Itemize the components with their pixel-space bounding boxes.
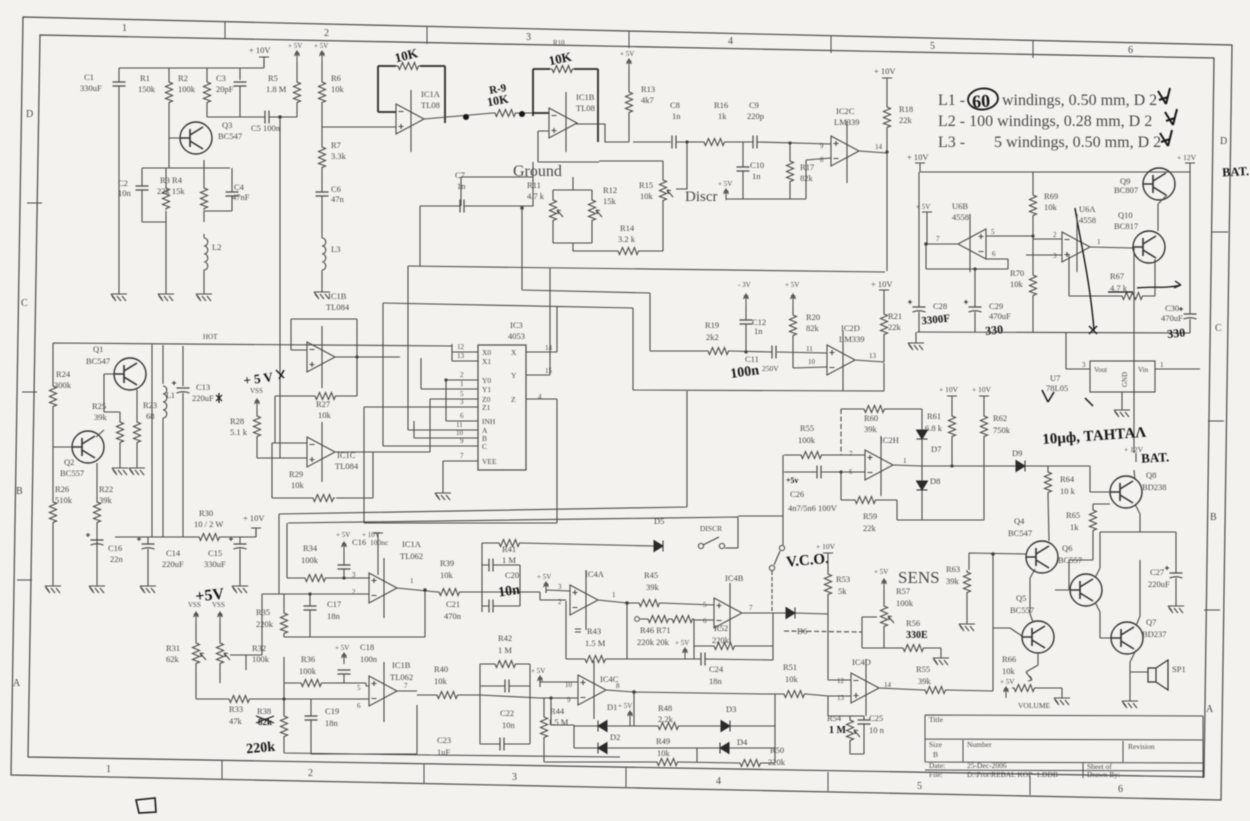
wire — [726, 141, 753, 143]
svg-text:Q3: Q3 — [222, 120, 232, 130]
svg-text:R63: R63 — [946, 564, 960, 574]
svg-text:R11: R11 — [527, 180, 541, 190]
wire q4 chain — [1030, 569, 1035, 622]
op-amp IC1A TL062 — [369, 573, 397, 603]
potentiometer R15 — [660, 178, 674, 202]
svg-text:8: 8 — [820, 156, 824, 164]
svg-text:R24: R24 — [56, 369, 71, 379]
wire q2 collector — [96, 463, 98, 580]
resistor R53 — [825, 572, 832, 596]
svg-text:VEE: VEE — [482, 457, 497, 466]
wire long mid line to R19 — [522, 209, 706, 351]
svg-text:R45: R45 — [644, 570, 658, 580]
svg-text:3: 3 — [558, 583, 562, 591]
capacitor C17 — [304, 606, 317, 610]
svg-text:R50: R50 — [770, 745, 784, 755]
capacitor C25 — [858, 720, 871, 724]
svg-text:10n: 10n — [118, 188, 132, 198]
resistor R44 — [541, 715, 548, 739]
pin numbers — [456, 343, 553, 460]
svg-text:100n: 100n — [360, 654, 378, 664]
svg-text:Y0: Y0 — [482, 376, 491, 385]
resistor R10 — [550, 66, 574, 73]
potentiometer R12 — [589, 198, 603, 222]
svg-text:R39: R39 — [440, 558, 454, 568]
svg-text:2: 2 — [324, 28, 329, 39]
svg-text:BC547: BC547 — [1008, 528, 1032, 538]
capacitor C16b — [338, 565, 351, 569]
capacitor C22 — [505, 680, 509, 693]
svg-text:C27: C27 — [1150, 567, 1164, 577]
svg-text:L3: L3 — [331, 244, 340, 254]
power +10V — [882, 78, 892, 87]
svg-text:220k 20k: 220k 20k — [637, 637, 670, 647]
svg-text:+ 10V: + 10V — [871, 279, 893, 289]
resistor R51 — [782, 691, 806, 698]
svg-text:IC2H: IC2H — [880, 435, 899, 445]
svg-text:X: X — [511, 348, 517, 357]
svg-text:+ 10V: + 10V — [972, 385, 992, 394]
resistor R2 — [204, 80, 211, 104]
transistor Q9 — [1143, 168, 1175, 200]
svg-text:1: 1 — [122, 23, 127, 34]
wire — [676, 141, 704, 143]
svg-text:+5v: +5v — [786, 476, 799, 485]
resistor R61 — [949, 414, 956, 438]
svg-text:IC4A: IC4A — [585, 569, 605, 579]
svg-text:10k: 10k — [1010, 279, 1024, 289]
svg-text:Revision: Revision — [1128, 742, 1155, 751]
resistor R48 — [656, 723, 680, 730]
svg-text:R21: R21 — [888, 311, 902, 321]
wire L1/C13 to bottom rail — [163, 393, 183, 537]
wire discr line — [726, 158, 831, 199]
svg-text:10n: 10n — [497, 583, 521, 601]
svg-text:2: 2 — [352, 588, 356, 596]
diode D3 — [721, 721, 730, 732]
svg-text:BD238: BD238 — [1142, 482, 1167, 492]
svg-text:12: 12 — [457, 343, 465, 351]
svg-text:C18: C18 — [360, 642, 374, 652]
svg-text:R18: R18 — [899, 104, 913, 114]
resistor R62 — [981, 414, 988, 438]
svg-text:C17: C17 — [327, 599, 341, 609]
supply +5V — [922, 212, 932, 221]
svg-text:R48: R48 — [658, 703, 672, 713]
svg-text:+ 10V: + 10V — [939, 385, 959, 394]
pin X0 X1 stubs — [452, 344, 478, 361]
svg-text:330: 330 — [1167, 325, 1186, 341]
svg-text:18n: 18n — [325, 718, 339, 728]
ground — [196, 288, 212, 301]
svg-text:470n: 470n — [444, 611, 462, 621]
capacitor C2 — [136, 186, 149, 190]
svg-text:C26: C26 — [790, 489, 804, 499]
svg-text:+ 5V: + 5V — [531, 667, 545, 675]
svg-text:L2: L2 — [212, 242, 221, 252]
svg-text:22k: 22k — [863, 523, 877, 533]
svg-text:R14: R14 — [620, 223, 635, 233]
svg-text:- 3V: - 3V — [738, 281, 751, 289]
svg-text:39k: 39k — [864, 424, 878, 434]
svg-text:10: 10 — [808, 358, 816, 366]
svg-text:750k: 750k — [993, 425, 1011, 435]
svg-text:1.5 M: 1.5 M — [585, 638, 606, 648]
svg-text:Q8: Q8 — [1146, 470, 1156, 480]
svg-text:Q7: Q7 — [1146, 617, 1156, 627]
resistor R28 — [254, 414, 261, 438]
svg-text:R1: R1 — [140, 73, 150, 83]
U7 78L05 box — [1090, 361, 1155, 392]
transistor Q10 — [1133, 231, 1165, 263]
svg-text:R16: R16 — [714, 100, 728, 110]
wire bottom row — [544, 694, 775, 763]
svg-text:R67: R67 — [1110, 271, 1124, 281]
ground — [1168, 600, 1184, 613]
svg-text:D9: D9 — [1012, 448, 1022, 458]
wire IC1B plus loop to ground bus — [538, 131, 599, 162]
resistor R16 — [702, 139, 726, 146]
svg-text:Vout: Vout — [1094, 366, 1107, 374]
svg-text:+ 5V: + 5V — [537, 573, 551, 581]
svg-text:+ 10V: + 10V — [874, 66, 896, 76]
svg-text:R12: R12 — [603, 185, 617, 195]
power +10V — [823, 553, 833, 562]
svg-text:300k: 300k — [54, 380, 72, 390]
svg-text:R19: R19 — [705, 320, 719, 330]
svg-text:1 M: 1 M — [829, 725, 847, 736]
wire r33 line — [196, 699, 369, 714]
op-amp IC1B TL084 — [307, 342, 335, 372]
svg-text:+ 5V: + 5V — [336, 531, 350, 539]
capacitor C11 — [772, 346, 776, 359]
svg-text:39k: 39k — [99, 495, 113, 505]
svg-text:C20: C20 — [505, 570, 519, 580]
wire IC4B out to D6 — [742, 613, 828, 614]
resistor R46 — [635, 617, 640, 622]
svg-text:6: 6 — [1128, 45, 1133, 56]
svg-text:C15: C15 — [208, 548, 222, 558]
resistor R30 — [197, 534, 221, 541]
svg-text:+ 5V: + 5V — [785, 281, 799, 289]
svg-text:5: 5 — [460, 390, 464, 398]
svg-text:Q1: Q1 — [93, 344, 103, 354]
svg-text:C3: C3 — [216, 73, 226, 83]
supply +5V arrow — [320, 51, 325, 62]
svg-text:220k: 220k — [246, 740, 276, 757]
svg-text:4558: 4558 — [1079, 215, 1096, 225]
long bus B to DISCR switch — [287, 516, 783, 578]
svg-text:R13: R13 — [641, 84, 655, 94]
transistor Q6 — [1070, 574, 1102, 606]
svg-text:4k7: 4k7 — [641, 95, 654, 105]
svg-text:100k: 100k — [178, 84, 196, 94]
svg-text:D1: D1 — [607, 702, 617, 712]
svg-text:39k: 39k — [946, 576, 960, 586]
svg-text:10k: 10k — [318, 410, 332, 420]
svg-text:R15: R15 — [639, 180, 653, 190]
svg-text:39k: 39k — [94, 412, 108, 422]
svg-text:R44: R44 — [550, 706, 565, 716]
svg-text:4558: 4558 — [952, 212, 969, 222]
capacitor C21 — [489, 600, 493, 613]
svg-text:+ 10V: + 10V — [362, 531, 380, 539]
wire U6A out to Q10 — [1090, 247, 1133, 248]
svg-text:78L05: 78L05 — [1046, 383, 1068, 393]
capacitor C10 — [742, 142, 744, 199]
svg-text:L1 -: L1 - — [938, 92, 965, 109]
inductor L1 search coil — [163, 386, 167, 418]
svg-text:BD237: BD237 — [1142, 629, 1167, 639]
svg-text:+ 10V: + 10V — [816, 542, 836, 551]
capacitor C27 — [1165, 566, 1183, 578]
svg-text:R36: R36 — [301, 654, 315, 664]
svg-text:220k: 220k — [256, 619, 274, 629]
svg-text:4n7/5n6 100V: 4n7/5n6 100V — [788, 503, 838, 513]
svg-text:INH: INH — [482, 417, 496, 426]
svg-text:47n: 47n — [331, 194, 345, 204]
svg-text:7: 7 — [936, 235, 940, 243]
resistor R69 — [1030, 193, 1037, 217]
ground — [232, 580, 248, 593]
capacitor C3 — [234, 82, 247, 86]
resistor R33 — [227, 696, 251, 703]
wire IC2H out — [893, 465, 1090, 466]
wire C7 left drop — [419, 206, 421, 266]
svg-text:Y1: Y1 — [482, 385, 491, 394]
wire top rail to +12V — [919, 172, 1190, 307]
svg-text:R34: R34 — [303, 543, 318, 553]
wire top rail — [119, 57, 322, 117]
svg-text:C30: C30 — [1165, 303, 1179, 313]
svg-text:2: 2 — [1053, 231, 1057, 239]
svg-text:Size: Size — [929, 740, 943, 749]
svg-text:Q4: Q4 — [1014, 516, 1025, 526]
svg-text:6: 6 — [357, 702, 361, 710]
svg-text:B: B — [933, 750, 938, 759]
svg-text:C1: C1 — [84, 72, 94, 82]
supply +5V — [882, 579, 887, 590]
op-amp IC4A — [570, 585, 598, 615]
svg-text:1: 1 — [1160, 361, 1164, 369]
svg-text:D:\Prot\REBAL KOP~1.DDB: D:\Prot\REBAL KOP~1.DDB — [967, 770, 1058, 779]
svg-text:R20: R20 — [806, 312, 820, 322]
pin labels inside — [482, 348, 517, 466]
wire R67 — [1069, 295, 1155, 297]
svg-text:R60: R60 — [864, 413, 878, 423]
op-amp IC4C — [578, 675, 606, 705]
svg-text:22k: 22k — [888, 322, 902, 332]
wire R28 to inputs — [257, 410, 280, 458]
svg-text:C23: C23 — [437, 735, 451, 745]
wire q1 base/emitter — [96, 374, 137, 462]
wire verticals from upper stages — [383, 266, 430, 452]
ground — [959, 618, 975, 631]
svg-text:R62: R62 — [993, 413, 1007, 423]
resistor R39 — [437, 589, 461, 596]
resistor R3 — [163, 186, 170, 210]
svg-text:BAT.: BAT. — [1141, 449, 1170, 465]
svg-text:220k: 220k — [768, 757, 786, 767]
op-amp IC1B — [549, 108, 577, 138]
svg-text:+ 5V: + 5V — [718, 180, 732, 188]
svg-text:R46 R71: R46 R71 — [640, 625, 670, 635]
svg-text:D7: D7 — [931, 444, 941, 454]
svg-text:R6: R6 — [331, 73, 341, 83]
wire U6B inputs — [986, 217, 1033, 273]
svg-text:12: 12 — [837, 677, 845, 685]
svg-text:D3: D3 — [726, 704, 736, 714]
svg-text:10k: 10k — [657, 748, 671, 758]
wire X output up and across to IC2D net — [383, 303, 884, 391]
svg-text:R51: R51 — [783, 662, 797, 672]
capacitor C29 — [964, 300, 982, 312]
svg-text:R10: R10 — [553, 39, 565, 47]
svg-text:R35: R35 — [256, 607, 270, 617]
svg-text:+ 5V: + 5V — [335, 644, 349, 652]
svg-text:3: 3 — [1053, 252, 1057, 260]
svg-text:4.7 k: 4.7 k — [527, 191, 545, 201]
wire — [166, 104, 297, 288]
wire bottom rail — [917, 332, 1190, 333]
svg-text:C24: C24 — [709, 664, 724, 674]
capacitor C12 — [745, 305, 747, 353]
wire base network — [142, 104, 230, 288]
power +10V — [251, 528, 261, 537]
svg-text:Q6: Q6 — [1062, 543, 1072, 553]
svg-text:R28: R28 — [230, 416, 244, 426]
capacitor C6 — [316, 192, 329, 196]
svg-text:R54: R54 — [827, 713, 842, 723]
svg-text:BC547: BC547 — [218, 131, 242, 141]
wire R60 loop — [841, 409, 922, 430]
resistor R7 — [319, 145, 326, 169]
svg-text:B: B — [1210, 512, 1217, 523]
svg-text:47k: 47k — [229, 716, 243, 726]
wire plus line from switch — [783, 455, 865, 545]
svg-text:GND: GND — [1121, 372, 1129, 387]
svg-text:R40: R40 — [434, 664, 448, 674]
svg-text:9: 9 — [567, 696, 571, 704]
svg-text:10k: 10k — [291, 480, 305, 490]
svg-text:20pF: 20pF — [216, 84, 234, 94]
svg-text:3.3k: 3.3k — [331, 151, 347, 161]
svg-text:A: A — [1206, 704, 1214, 715]
capacitor C5 — [265, 111, 269, 124]
svg-text:13: 13 — [457, 352, 465, 360]
resistor R38 — [281, 714, 288, 738]
svg-text:+ 5V: + 5V — [288, 42, 302, 50]
svg-text:C25: C25 — [869, 713, 883, 723]
handwritten small square bottom-left — [136, 798, 156, 813]
resistor R25 — [117, 420, 124, 444]
resistor R4 — [201, 186, 208, 210]
svg-text:D2: D2 — [610, 732, 620, 742]
svg-text:7: 7 — [849, 450, 853, 458]
svg-text:D: D — [1220, 136, 1227, 147]
svg-text:10k: 10k — [331, 84, 345, 94]
svg-text:IC1A: IC1A — [402, 539, 422, 549]
svg-text:220uF: 220uF — [162, 559, 184, 569]
svg-text:R27: R27 — [316, 399, 330, 409]
wire plus input — [546, 590, 627, 603]
op-amp IC1B feedback box with R10 — [533, 69, 598, 142]
svg-text:C19: C19 — [325, 706, 339, 716]
svg-text:4: 4 — [728, 36, 733, 47]
svg-text:11: 11 — [456, 421, 463, 429]
svg-text:5 windings, 0.50 mm, D 2: 5 windings, 0.50 mm, D 2 — [994, 134, 1161, 151]
pin VEE wire and ground — [443, 461, 478, 487]
svg-text:18n: 18n — [327, 611, 341, 621]
svg-text:TL084: TL084 — [326, 302, 350, 312]
wire U6B out loop to C29 — [926, 221, 1008, 307]
svg-text:1: 1 — [106, 764, 111, 775]
svg-text:C14: C14 — [166, 548, 181, 558]
capacitor C14 — [147, 537, 149, 580]
capacitor C23 — [500, 738, 504, 751]
ground — [435, 487, 451, 500]
svg-text:39k: 39k — [646, 582, 660, 592]
resistor R45 — [637, 600, 661, 607]
svg-text:IC2C: IC2C — [836, 106, 855, 116]
op-amp IC1B TL062 — [369, 676, 397, 706]
svg-text:2k2: 2k2 — [706, 332, 719, 342]
svg-text:DISCR: DISCR — [700, 524, 722, 533]
svg-text:Date:: Date: — [929, 761, 945, 770]
op-amp U6B — [958, 229, 986, 259]
svg-text:1k: 1k — [1070, 522, 1079, 532]
wire feedback loop — [275, 319, 400, 443]
svg-text:330uF: 330uF — [80, 83, 102, 93]
ground — [314, 286, 330, 299]
node blobs — [463, 114, 469, 120]
svg-text:X1: X1 — [482, 357, 491, 366]
resistor R40 — [435, 692, 459, 699]
wire bottom rail — [115, 528, 256, 537]
resistor R18 — [884, 105, 891, 129]
svg-text:100k: 100k — [301, 555, 319, 565]
svg-text:C: C — [1215, 323, 1222, 334]
svg-text:IC1B: IC1B — [576, 92, 595, 102]
svg-text:Title: Title — [929, 715, 944, 724]
resistor R65 — [1090, 508, 1097, 532]
svg-text:VSS: VSS — [212, 601, 225, 609]
svg-text:R53: R53 — [836, 574, 850, 584]
svg-text:10k: 10k — [640, 191, 654, 201]
wire bottom loop — [284, 691, 620, 757]
svg-text:+ 5V: + 5V — [314, 42, 328, 50]
wire U7 — [1066, 333, 1200, 404]
wire IC2D out — [855, 299, 884, 362]
wire R15 top — [599, 161, 663, 251]
op-amp IC1C — [307, 437, 335, 467]
svg-text:R65: R65 — [1066, 510, 1080, 520]
svg-text:Y: Y — [511, 371, 517, 380]
power +10V — [259, 57, 269, 66]
svg-text:62k: 62k — [166, 654, 180, 664]
svg-text:D8: D8 — [930, 476, 940, 486]
svg-text:IC2D: IC2D — [841, 323, 860, 333]
svg-text:TL062: TL062 — [400, 551, 423, 561]
svg-text:3.2 k: 3.2 k — [618, 234, 636, 244]
svg-text:1: 1 — [903, 457, 907, 465]
svg-text:U6A: U6A — [1079, 204, 1096, 214]
svg-text:100k: 100k — [299, 666, 317, 676]
op-amp IC1A — [396, 104, 424, 134]
supply VSS arrow — [255, 399, 260, 410]
resistor R36 — [299, 680, 323, 687]
capacitor C28 — [908, 300, 926, 312]
